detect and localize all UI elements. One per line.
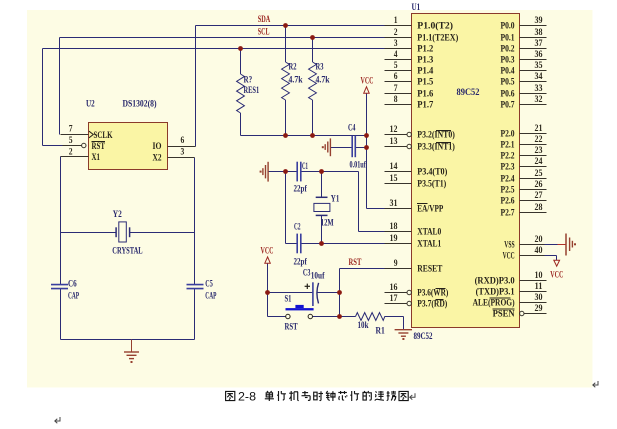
U1 pin 33 P0.6: [501, 83, 547, 100]
U1 pin 9 RESET: [385, 258, 443, 275]
svg-text:8: 8: [394, 94, 398, 105]
svg-text:P0.3: P0.3: [501, 55, 515, 66]
svg-text:SDA: SDA: [258, 14, 271, 25]
svg-text:9: 9: [394, 258, 398, 269]
capacitor C2 22pf: [294, 222, 308, 268]
U1 pin 24 P2.3: [501, 156, 547, 173]
svg-text:P2.1: P2.1: [501, 140, 515, 151]
svg-text:P0.5: P0.5: [501, 77, 515, 88]
svg-text:PSEN: PSEN: [493, 309, 515, 320]
svg-text:P0.4: P0.4: [501, 66, 515, 77]
svg-text:10: 10: [535, 270, 543, 281]
svg-text:P2.4: P2.4: [501, 174, 515, 185]
U1 pin 2 P1.1(T2EX): [385, 27, 459, 44]
svg-text:C2: C2: [294, 222, 301, 233]
svg-text:1: 1: [394, 15, 398, 26]
ground at VSS: [558, 234, 577, 256]
svg-text:S1: S1: [285, 294, 292, 305]
resistor R3 4.7k: [309, 38, 317, 136]
svg-text:4.7k: 4.7k: [316, 75, 330, 86]
label SCL: [258, 27, 270, 38]
svg-text:DS1302(8): DS1302(8): [123, 99, 157, 110]
U1 pin 15 P3.5(T1): [385, 173, 447, 190]
svg-text:23: 23: [535, 145, 543, 156]
svg-text:6: 6: [394, 71, 398, 82]
wire VCC rail to EA/VPP: [367, 94, 385, 209]
svg-text:P2.2: P2.2: [501, 151, 515, 162]
junction R2 bottom on VCC rail: [283, 133, 288, 138]
svg-text:P2.5: P2.5: [501, 185, 515, 196]
svg-text:36: 36: [535, 49, 543, 60]
svg-text:17: 17: [390, 293, 398, 304]
U1 pin 18 XTAL0: [385, 221, 442, 238]
paragraph mark after caption: [410, 393, 415, 399]
svg-text:Y1: Y1: [331, 194, 340, 205]
svg-text:3: 3: [394, 38, 398, 49]
crystal Y1 12M: [314, 172, 330, 244]
label SDA: [258, 14, 271, 25]
svg-text:7: 7: [394, 83, 398, 94]
svg-text:22: 22: [535, 134, 543, 145]
wire VSS to ground: [545, 244, 558, 246]
label 89C52 under chip: [414, 331, 433, 342]
U1 pin 3 P1.2: [385, 38, 434, 55]
junction VCC rail / resistor line: [364, 133, 369, 138]
svg-text:X2: X2: [153, 153, 162, 164]
U2 pin 6 IO: [153, 135, 196, 152]
U1 pin 29 PSEN: [493, 303, 547, 320]
wire X2 crystal loop: [194, 158, 196, 340]
svg-text:P3.3(INT1): P3.3(INT1): [417, 142, 455, 153]
svg-text:5: 5: [394, 60, 398, 71]
capacitor C1 22pf: [294, 161, 309, 195]
svg-text:38: 38: [535, 27, 543, 38]
svg-text:SCLK: SCLK: [94, 130, 113, 141]
svg-text:C3: C3: [303, 268, 311, 279]
U2 pin 2 X1: [61, 147, 101, 164]
svg-text:XTAL0: XTAL0: [417, 227, 441, 238]
svg-text:C6: C6: [68, 279, 77, 290]
junction Y1 top / C1 right: [319, 169, 324, 174]
svg-text:37: 37: [535, 38, 543, 49]
svg-text:4: 4: [394, 49, 398, 60]
svg-text:R3: R3: [316, 62, 324, 73]
U1 pin 39 P0.0: [501, 15, 547, 32]
U1 pin 32 P0.7: [501, 94, 547, 111]
svg-text:CAP: CAP: [205, 291, 216, 302]
svg-text:P2.3: P2.3: [501, 162, 515, 173]
wire S1 to R1 to ground: [313, 317, 404, 330]
U1 pin 12 P3.2(INT0): [385, 124, 455, 141]
wire C4 row: [331, 147, 367, 149]
wire C1-C2 ground vertical: [285, 172, 287, 244]
U1 pin 7 P1.6: [385, 83, 434, 100]
wire C1 row to XTAL0: [269, 172, 385, 232]
ground at C1: [260, 162, 269, 182]
U1 pin 1 P1.0(T2): [385, 15, 454, 32]
U1 pin 16 P3.6(WR): [385, 282, 449, 299]
svg-text:VCC: VCC: [361, 76, 374, 87]
wire VCC to S1 vertical: [268, 264, 286, 317]
svg-text:15: 15: [390, 173, 398, 184]
capacitor C4 0.01uf: [348, 123, 366, 171]
VCC symbol upper: [361, 76, 374, 94]
svg-text:27: 27: [535, 190, 543, 201]
svg-text:C5: C5: [205, 279, 213, 290]
svg-text:Y2: Y2: [113, 209, 122, 220]
ground at C4: [322, 138, 331, 156]
U1 pin 28 P2.7: [501, 202, 547, 219]
U2 pin 7 SCLK: [61, 124, 113, 142]
svg-text:31: 31: [390, 198, 398, 209]
svg-text:29: 29: [535, 303, 543, 314]
U2 pin 5 /RST bubble: [63, 135, 106, 152]
U1 pin 27 P2.6: [501, 190, 547, 207]
svg-text:13: 13: [390, 136, 398, 147]
svg-text:RESET: RESET: [417, 264, 442, 275]
svg-text:VSS: VSS: [504, 240, 514, 251]
U1 pin 11 (TXD)P3.1: [476, 281, 547, 298]
U1 pin 26 P2.5: [501, 179, 547, 196]
U1 pin 4 P1.3: [385, 49, 434, 66]
svg-text:U1: U1: [412, 3, 421, 13]
U1 pin 14 P3.4(T0): [385, 161, 448, 178]
junction R3 top on SCL: [310, 35, 315, 40]
svg-text:18: 18: [390, 221, 398, 232]
resistor R1 10k: [356, 313, 385, 321]
svg-text:33: 33: [535, 83, 543, 94]
svg-text:26: 26: [535, 179, 543, 190]
svg-text:2: 2: [69, 147, 73, 158]
svg-text:89C52: 89C52: [414, 331, 433, 342]
svg-text:P1.0(T2): P1.0(T2): [417, 21, 453, 32]
svg-text:P1.1(T2EX): P1.1(T2EX): [417, 33, 458, 44]
svg-text:RST: RST: [349, 257, 362, 268]
svg-text:P2.0: P2.0: [501, 129, 515, 140]
svg-text:14: 14: [390, 161, 398, 172]
svg-text:C4: C4: [348, 123, 356, 134]
label RST red at RESET: [349, 257, 362, 268]
U1 pin 8 P1.7: [385, 94, 434, 111]
svg-text:P0.2: P0.2: [501, 44, 515, 55]
svg-text:2: 2: [394, 27, 398, 38]
svg-text:X1: X1: [92, 152, 101, 163]
svg-text:5: 5: [69, 135, 73, 146]
svg-text:CAP: CAP: [68, 291, 79, 302]
ground at R1: [395, 330, 412, 340]
U1 pin 35 P0.4: [501, 60, 547, 77]
svg-text:35: 35: [535, 60, 543, 71]
U1 pin 30 ALE(PROG): [473, 292, 547, 309]
junction C1 left / ground branch: [283, 169, 288, 174]
svg-text:U2: U2: [86, 100, 95, 110]
svg-text:P3.7(RD): P3.7(RD): [417, 299, 447, 310]
svg-text:11: 11: [535, 281, 543, 292]
VCC symbol at pin 40: [550, 260, 563, 280]
wire C3 row: [268, 292, 340, 294]
svg-text:VCC: VCC: [261, 246, 274, 257]
chip U2 DS1302 body: [86, 99, 168, 170]
U1 pin 6 P1.5: [385, 71, 434, 88]
svg-text:P3.2(INT0): P3.2(INT0): [417, 130, 455, 141]
U1 pin 19 XTAL1: [385, 233, 442, 250]
svg-text:R?: R?: [244, 75, 253, 86]
svg-text:SCL: SCL: [258, 27, 270, 38]
junction R3 bottom on VCC rail: [310, 133, 315, 138]
resistor R? RES1: [237, 49, 245, 136]
wire P1.2-RST net: [43, 49, 385, 146]
paragraph mark bottom left: [55, 417, 60, 423]
svg-text:RST: RST: [92, 141, 106, 152]
svg-text:RST: RST: [285, 322, 299, 333]
svg-text:C1: C1: [302, 161, 308, 172]
svg-text:P1.4: P1.4: [417, 66, 433, 77]
U1 pin 13 P3.3(INT1): [385, 136, 455, 153]
resistor R2 4.7k: [282, 26, 290, 136]
svg-text:28: 28: [535, 202, 543, 213]
ground bottom center: [124, 340, 139, 364]
svg-text:89C52: 89C52: [457, 87, 480, 98]
svg-text:20: 20: [535, 234, 543, 245]
svg-text:22pf: 22pf: [294, 257, 308, 268]
svg-text:19: 19: [390, 233, 398, 244]
svg-text:EA/VPP: EA/VPP: [417, 204, 443, 215]
svg-text:VCC: VCC: [550, 270, 563, 281]
U1 pin 20 VSS: [504, 234, 544, 251]
svg-text:40: 40: [535, 245, 543, 256]
paragraph mark right of schematic: [593, 381, 598, 387]
svg-text:32: 32: [535, 94, 543, 105]
junction C4 to VCC rail: [364, 145, 369, 150]
wire C2 row to XTAL1: [286, 243, 385, 245]
svg-text:P0.6: P0.6: [501, 89, 515, 100]
svg-text:4.7k: 4.7k: [289, 75, 303, 86]
junction Y1 bottom / C2 right: [319, 241, 324, 246]
svg-text:34: 34: [535, 71, 543, 82]
crystal Y2 CRYSTAL: [116, 222, 130, 242]
svg-text:24: 24: [535, 156, 543, 167]
svg-text:(RXD)P3.0: (RXD)P3.0: [475, 276, 515, 287]
wire SDA net: [196, 26, 385, 147]
svg-text:P3.5(T1): P3.5(T1): [417, 179, 446, 190]
svg-text:CRYSTAL: CRYSTAL: [112, 246, 143, 257]
caption 图2-8 单片机与时钟芯片的连接图: [226, 391, 235, 400]
svg-text:ALE(PROG): ALE(PROG): [473, 298, 515, 309]
U1 pin 21 P2.0: [501, 123, 547, 140]
svg-text:P1.7: P1.7: [417, 100, 433, 111]
svg-text:7: 7: [69, 124, 73, 135]
wire RESET net: [340, 269, 385, 317]
svg-text:P0.1: P0.1: [501, 33, 515, 44]
svg-text:2-8: 2-8: [238, 390, 256, 404]
VCC symbol at S1: [261, 246, 274, 264]
U1 pin 34 P0.5: [501, 71, 547, 88]
U1 pin 5 P1.4: [385, 60, 434, 77]
capacitor C6 CAP: [51, 279, 79, 302]
svg-text:10uf: 10uf: [311, 271, 325, 282]
svg-text:22pf: 22pf: [294, 184, 308, 195]
capacitor C5 CAP: [187, 279, 217, 302]
junction C3 to RESET net: [337, 290, 342, 295]
svg-text:10k: 10k: [358, 320, 369, 331]
svg-text:P2.6: P2.6: [501, 196, 515, 207]
U1 pin 25 P2.4: [501, 168, 547, 185]
svg-text:30: 30: [535, 292, 543, 303]
svg-text:25: 25: [535, 168, 543, 179]
svg-text:21: 21: [535, 123, 543, 134]
svg-text:P1.2: P1.2: [417, 44, 433, 55]
U1 pin 10 (RXD)P3.0: [475, 270, 547, 287]
U1 pin 37 P0.2: [501, 38, 547, 55]
U1 pin 36 P0.3: [501, 49, 547, 66]
junction S1 to RESET net: [337, 314, 342, 319]
svg-text:RES1: RES1: [244, 85, 260, 96]
svg-text:R1: R1: [376, 326, 385, 337]
wire VCC pin40: [545, 256, 557, 261]
wire X1 crystal loop: [61, 157, 195, 340]
svg-text:P2.7: P2.7: [501, 208, 515, 219]
svg-text:P3.4(T0): P3.4(T0): [417, 167, 447, 178]
U2 pin 3 X2: [153, 147, 195, 164]
wire SCL net: [60, 38, 385, 135]
junction R2 top on SDA: [283, 23, 288, 28]
chip U1 89C52 body: [412, 3, 520, 328]
svg-text:P1.5: P1.5: [417, 77, 433, 88]
svg-text:XTAL1: XTAL1: [417, 239, 441, 250]
U1 pin 22 P2.1: [501, 134, 547, 151]
U1 pin 40 VCC: [503, 245, 545, 262]
U1 pin 23 P2.2: [501, 145, 547, 162]
svg-text:3: 3: [181, 147, 185, 158]
svg-text:P1.3: P1.3: [417, 55, 433, 66]
svg-text:IO: IO: [153, 141, 162, 152]
svg-text:12: 12: [390, 124, 398, 135]
junction R? top on P1.2 net: [238, 46, 243, 51]
svg-text:P1.6: P1.6: [417, 89, 433, 100]
svg-text:16: 16: [390, 282, 398, 293]
U1 pin 31 EA/VPP: [385, 198, 444, 215]
U1 pin 17 P3.7(RD): [385, 293, 448, 310]
wire resistor bottoms to VCC rail: [241, 135, 367, 137]
svg-text:12M: 12M: [321, 218, 334, 229]
capacitor C3 10uf electrolytic: [303, 268, 325, 307]
switch S1: [285, 294, 314, 333]
svg-text:VCC: VCC: [503, 251, 515, 262]
U1 pin 38 P0.1: [501, 27, 547, 44]
svg-text:39: 39: [535, 15, 543, 26]
junction VCC to C3 row: [265, 290, 270, 295]
svg-text:R2: R2: [289, 62, 297, 73]
svg-text:0.01uf: 0.01uf: [350, 160, 367, 171]
svg-text:P0.7: P0.7: [501, 100, 515, 111]
svg-text:6: 6: [181, 135, 185, 146]
svg-text:P3.6(WR): P3.6(WR): [417, 288, 448, 299]
svg-text:(TXD)P3.1: (TXD)P3.1: [476, 287, 515, 298]
svg-text:P0.0: P0.0: [501, 21, 515, 32]
